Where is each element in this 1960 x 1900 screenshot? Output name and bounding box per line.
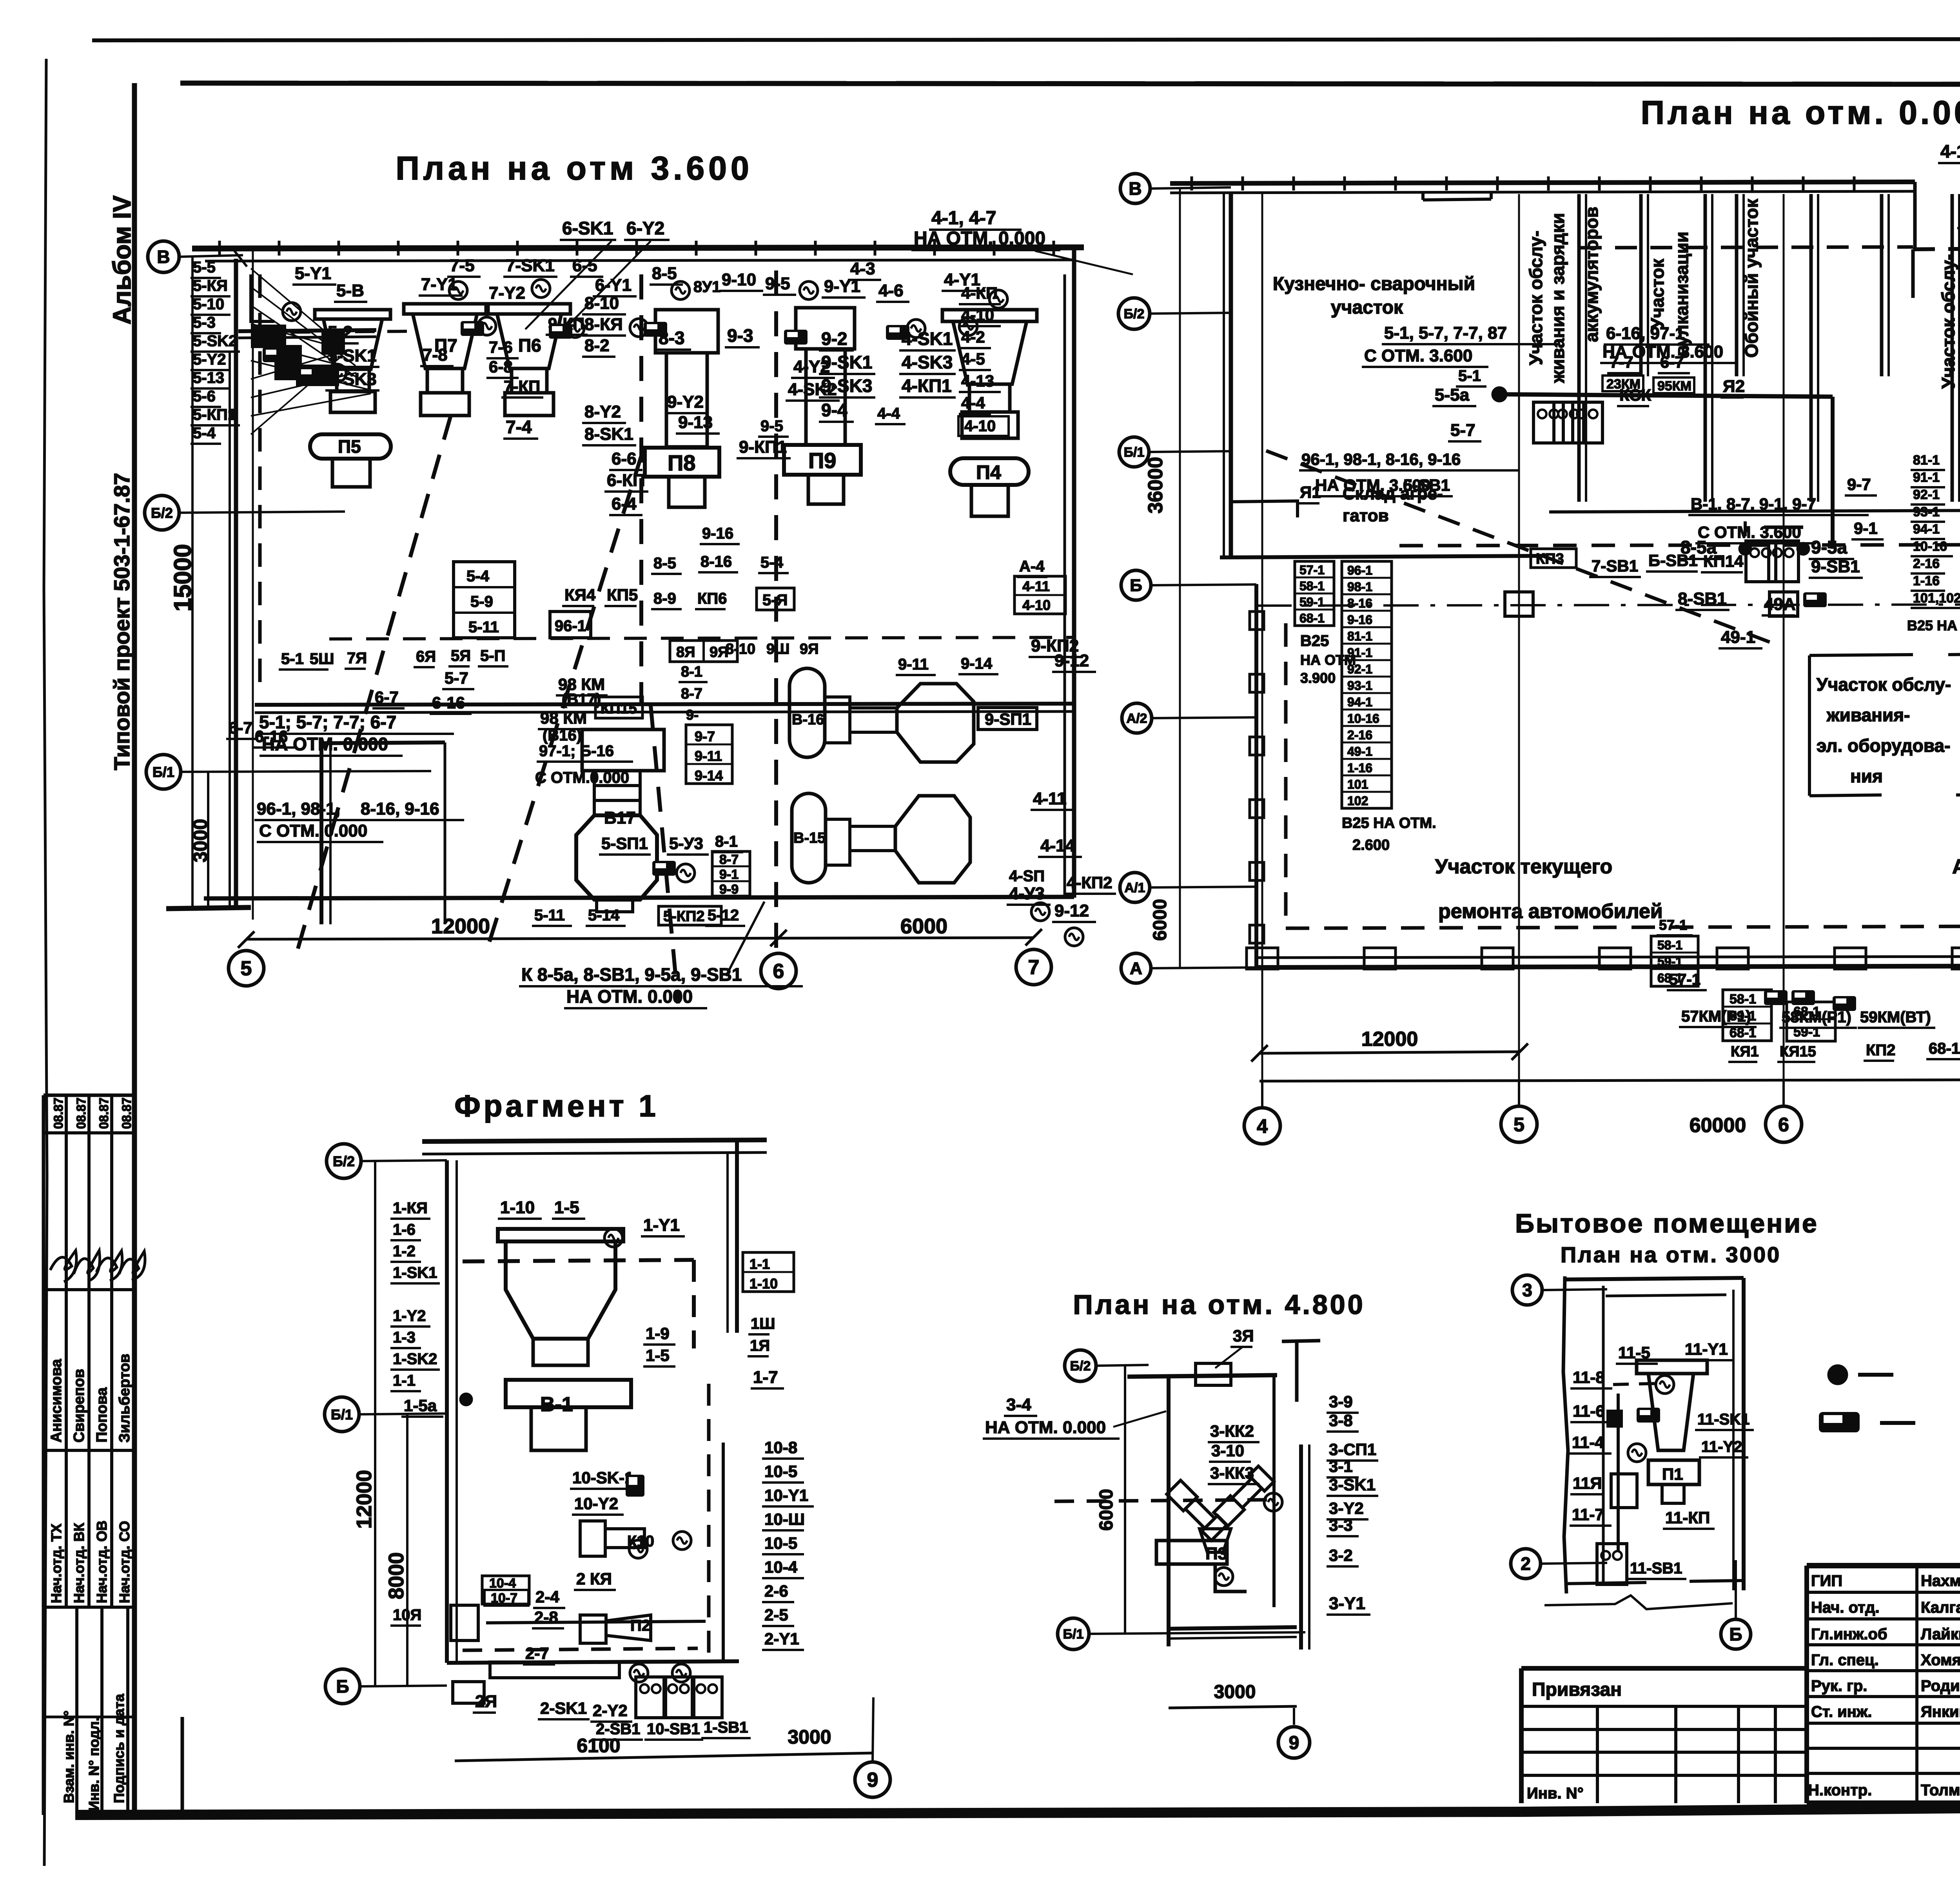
svg-text:10-SK-1: 10-SK-1 <box>572 1468 633 1487</box>
p48 axis Б/1 <box>1089 1632 1305 1634</box>
svg-text:Родионова: Родионова <box>1921 1677 1960 1695</box>
plan2 bottom wall inner <box>1256 956 1960 958</box>
frag grid leader 9 <box>873 1697 873 1762</box>
label box 96-1 <box>550 612 591 638</box>
svg-text:П8: П8 <box>668 450 695 475</box>
sensor (circle-tilde) <box>959 318 977 336</box>
svg-text:12000: 12000 <box>352 1470 376 1529</box>
byt route vertical <box>1617 1394 1620 1552</box>
dashed route vertical left <box>258 274 262 690</box>
machine B-15 funnel <box>826 819 850 865</box>
plan2 west wall 2 <box>1223 194 1225 557</box>
plan2 top wall tick west <box>1649 176 1652 191</box>
grid circle Б <box>1121 570 1151 600</box>
svg-text:4-Y2: 4-Y2 <box>793 357 830 376</box>
p48 dim vert <box>1124 1366 1126 1634</box>
route vertical 8-5a <box>1744 521 1747 536</box>
plan1 top wall tick <box>755 241 757 256</box>
svg-text:гатов: гатов <box>1343 506 1389 525</box>
svg-text:Б/1: Б/1 <box>1124 445 1145 460</box>
svg-text:Нахметдинов: Нахметдинов <box>1921 1572 1960 1590</box>
privyazan col <box>1674 1706 1677 1803</box>
outer top border line <box>92 39 1960 40</box>
svg-text:1Я: 1Я <box>750 1337 770 1354</box>
svg-text:59-1: 59-1 <box>1657 955 1682 969</box>
plan1 top wall tick <box>457 241 459 256</box>
column line 4 <box>1261 194 1263 1081</box>
plan2 top wall tick west <box>1547 176 1550 191</box>
svg-text:ремонта автомобилей: ремонта автомобилей <box>1438 900 1663 923</box>
dim tick <box>1512 1043 1528 1060</box>
grid circle Б/2 <box>1065 1350 1096 1381</box>
inner frame left line <box>132 83 137 1815</box>
svg-text:94-1: 94-1 <box>1347 695 1372 709</box>
frag dashed vertical 1-7 <box>707 1384 711 1662</box>
svg-text:4-4: 4-4 <box>877 405 900 422</box>
svg-text:9-1: 9-1 <box>719 867 739 882</box>
svg-text:5-Y2: 5-Y2 <box>193 351 226 368</box>
svg-text:8-5: 8-5 <box>652 264 677 283</box>
plan1 top wall lower line <box>205 260 1074 261</box>
stamp signature 3 <box>96 1251 122 1281</box>
plan1 room walls bottom-left <box>319 743 323 924</box>
byt hopper plate <box>1637 1360 1707 1374</box>
plan1 right wall inner <box>1063 274 1066 897</box>
svg-text:10-Ш: 10-Ш <box>764 1510 805 1528</box>
svg-text:9-16: 9-16 <box>702 525 733 542</box>
plan1 top wall tick <box>933 241 936 256</box>
label box КП3 <box>1531 549 1576 568</box>
svg-text:Б: Б <box>1729 1624 1742 1644</box>
plan2 top wall tick west <box>1598 176 1601 191</box>
pushbutton box <box>1746 541 1776 582</box>
p48 bottom wall2 <box>1169 1637 1297 1639</box>
svg-text:10-Y2: 10-Y2 <box>574 1494 618 1513</box>
svg-text:95КМ: 95КМ <box>1657 379 1691 394</box>
svg-text:Подпись и дата: Подпись и дата <box>111 1693 127 1803</box>
plan2 bottom column pad <box>1247 948 1278 969</box>
svg-text:Агрегатно - механический: Агрегатно - механический <box>1952 855 1960 878</box>
p48 outer right wall <box>1299 1445 1303 1650</box>
plan2 west wall low pad <box>1250 925 1264 943</box>
frag axis Б/2 <box>361 1160 447 1161</box>
machine B-16 funnel <box>825 697 850 743</box>
svg-text:3: 3 <box>1522 1280 1532 1300</box>
svg-text:10-16: 10-16 <box>1347 711 1379 726</box>
staff row line <box>1807 1669 1960 1672</box>
svg-text:5-1: 5-1 <box>281 650 304 668</box>
svg-text:8У1: 8У1 <box>693 278 720 296</box>
frag hopper B-1 bar <box>506 1380 631 1407</box>
sensor (circle-tilde) <box>630 319 648 337</box>
leader 5-SK2 <box>251 342 356 369</box>
leader 5-13 <box>251 352 342 379</box>
svg-text:3-2: 3-2 <box>1329 1546 1353 1564</box>
frag hopper B-1 plate <box>498 1229 623 1241</box>
plan2 west wall <box>1229 194 1233 557</box>
svg-text:Нач.отд. ВК: Нач.отд. ВК <box>71 1523 87 1603</box>
svg-text:П9: П9 <box>808 448 836 473</box>
staff row line <box>1807 1643 1960 1646</box>
svg-text:5-4: 5-4 <box>193 425 216 442</box>
plan2 top wall west segment <box>1170 182 1915 183</box>
svg-text:3-1: 3-1 <box>1329 1457 1353 1475</box>
sensor (circle-tilde) <box>532 279 550 298</box>
plan2 west wall low pad <box>1250 862 1264 880</box>
svg-text:6000: 6000 <box>900 915 947 938</box>
titleblock bottom edge <box>1807 1800 1960 1806</box>
plan2 west wall low <box>1254 584 1258 968</box>
svg-text:8-7: 8-7 <box>719 852 739 867</box>
svg-text:9-Y2: 9-Y2 <box>667 392 704 412</box>
svg-text:Б/2: Б/2 <box>1124 307 1145 321</box>
byt top wall <box>1565 1278 1744 1279</box>
svg-text:1-2: 1-2 <box>393 1243 416 1260</box>
svg-text:6000: 6000 <box>1150 899 1171 941</box>
svg-text:9: 9 <box>867 1769 878 1791</box>
axis line Б/1 <box>1149 451 1231 452</box>
svg-text:8-10: 8-10 <box>584 294 619 313</box>
leader 4-1 4-7 <box>1035 251 1133 274</box>
svg-text:А/1: А/1 <box>1125 880 1145 895</box>
p48 route elbow <box>1215 1564 1247 1591</box>
svg-text:В-1: В-1 <box>540 1393 573 1416</box>
svg-text:Нач.отд. СО: Нач.отд. СО <box>116 1521 132 1603</box>
svg-text:7-SK1: 7-SK1 <box>506 256 555 275</box>
svg-text:5-5а: 5-5а <box>1435 385 1470 405</box>
label box 10-4 10-7 <box>482 1576 529 1604</box>
frag hopper B-1 neck <box>533 1339 588 1365</box>
svg-text:91-1: 91-1 <box>1347 646 1372 660</box>
svg-text:8-16, 9-16: 8-16, 9-16 <box>361 799 439 818</box>
svg-text:96-1, 98-1,: 96-1, 98-1, <box>257 799 340 818</box>
svg-text:6-Y1: 6-Y1 <box>595 276 632 295</box>
p48 top wall <box>1127 1375 1277 1377</box>
label box П8 <box>645 448 719 477</box>
frag axis Б/1 <box>359 1414 447 1414</box>
svg-text:96-1: 96-1 <box>555 617 586 635</box>
axis leader В <box>1150 187 1231 189</box>
privyazan col <box>1774 1706 1777 1803</box>
p48 outer right wall2 <box>1308 1445 1310 1650</box>
svg-text:Хомяков: Хомяков <box>1921 1651 1960 1669</box>
grid circle 4 <box>1244 1108 1280 1144</box>
svg-text:7-6: 7-6 <box>489 338 513 356</box>
grid circle Б/2 <box>1118 298 1150 329</box>
staff row line <box>1807 1722 1960 1725</box>
plan1 top wall tick <box>278 241 281 256</box>
svg-text:В-15: В-15 <box>793 830 826 846</box>
sensor (circle-tilde) <box>449 281 467 299</box>
dashed route upper <box>1580 247 1913 248</box>
leader 3-4 <box>1113 1411 1166 1427</box>
svg-text:10Я: 10Я <box>393 1606 421 1624</box>
plan2 top wall tick west <box>1802 176 1805 191</box>
leader 5-КЯ <box>251 287 356 366</box>
svg-text:7: 7 <box>1028 956 1040 979</box>
sensor (circle-tilde) <box>1628 1444 1646 1462</box>
svg-text:8Я: 8Я <box>676 644 695 661</box>
column line 5 <box>1518 194 1520 1081</box>
stamp column divider below names <box>44 1449 134 1452</box>
leader 5-Y2 <box>251 361 370 390</box>
svg-text:8-КЯ: 8-КЯ <box>584 315 623 334</box>
svg-text:9-КП1: 9-КП1 <box>739 437 787 457</box>
svg-text:6-SK1: 6-SK1 <box>562 218 613 238</box>
privyazan col <box>1596 1706 1599 1803</box>
byt hopper funnel <box>1648 1374 1693 1450</box>
axis line Б/1 plan1 <box>181 771 431 772</box>
grid leader 6 <box>1782 1081 1785 1106</box>
machine B17 stack <box>594 771 640 786</box>
p48 dashed route <box>1054 1500 1270 1501</box>
svg-text:Нач.отд. ТХ: Нач.отд. ТХ <box>48 1524 64 1603</box>
frag dashed vertical <box>692 1260 696 1348</box>
instrument (regulator box) <box>461 321 484 336</box>
svg-text:8-10: 8-10 <box>726 641 755 657</box>
svg-text:К 8-5а, 8-SВ1, 9-5а, 9-SВ1: К 8-5а, 8-SВ1, 9-5а, 9-SВ1 <box>521 964 742 985</box>
axis line Б dashdot <box>1151 584 1256 585</box>
svg-text:П6: П6 <box>518 335 541 356</box>
label box П9 <box>784 445 861 475</box>
label box 8-7 stack <box>712 851 750 896</box>
svg-text:2-Y1: 2-Y1 <box>764 1630 799 1648</box>
svg-text:Калганов: Калганов <box>1921 1599 1960 1616</box>
plan1 top wall tick <box>993 241 996 256</box>
corridor dashed route <box>1399 544 1960 546</box>
svg-text:6-5: 6-5 <box>572 256 597 275</box>
route from 5-5a down <box>1831 397 1835 549</box>
svg-text:4-10: 4-10 <box>1022 597 1051 613</box>
П5 stem <box>332 459 370 487</box>
p48 left wall <box>1167 1377 1171 1646</box>
svg-text:59КМ(ВТ): 59КМ(ВТ) <box>1860 1009 1931 1026</box>
svg-text:3000: 3000 <box>189 819 211 862</box>
svg-text:В25 НА ОТМ.2600: В25 НА ОТМ.2600 <box>1907 617 1960 633</box>
svg-text:68-1: 68-1 <box>1929 1040 1960 1057</box>
stamp column top line <box>44 1094 134 1097</box>
svg-text:9-7: 9-7 <box>1847 475 1871 494</box>
plan1 left wall <box>234 259 238 907</box>
svg-text:5-6: 5-6 <box>193 388 216 405</box>
svg-text:3-Y2: 3-Y2 <box>1329 1499 1364 1517</box>
p48 right wall <box>1272 1377 1276 1607</box>
svg-text:12000: 12000 <box>1361 1028 1418 1051</box>
svg-text:9-5: 9-5 <box>765 274 790 293</box>
frag left instr <box>453 1682 484 1703</box>
p48 bottom wall <box>1169 1627 1297 1629</box>
svg-text:ния: ния <box>1850 766 1883 786</box>
svg-text:102: 102 <box>1347 794 1368 808</box>
plan1 top wall tick <box>338 241 340 256</box>
byt axis Б leader <box>1735 1560 1737 1619</box>
sensor (circle-tilde) <box>989 290 1007 308</box>
stadium П5 <box>310 434 391 459</box>
svg-text:6-6: 6-6 <box>612 449 637 468</box>
instrument (regulator box) <box>626 1475 644 1497</box>
byt stem <box>1662 1484 1684 1503</box>
svg-text:68-1: 68-1 <box>1657 971 1682 985</box>
svg-text:участок: участок <box>1331 297 1403 318</box>
svg-text:Бытовое помещение: Бытовое помещение <box>1515 1209 1818 1238</box>
sensor (circle-tilde) <box>478 317 496 335</box>
svg-text:2-SK1: 2-SK1 <box>540 1699 587 1717</box>
svg-text:4-10: 4-10 <box>964 417 996 435</box>
svg-text:93-1: 93-1 <box>1913 504 1940 519</box>
svg-text:5-3: 5-3 <box>193 314 216 331</box>
svg-text:9-14: 9-14 <box>695 768 723 784</box>
svg-text:91-1: 91-1 <box>1913 470 1940 485</box>
plan1 left wall inner <box>229 353 231 907</box>
svg-text:49-1: 49-1 <box>1721 628 1755 647</box>
instrument (regulator box) <box>263 347 286 362</box>
frag dashed route top <box>463 1260 694 1261</box>
grid circle Б/1 <box>1058 1618 1089 1650</box>
sensor (circle-tilde) <box>630 1664 648 1682</box>
byt break line <box>1544 1595 1733 1609</box>
grid leader 4 <box>1261 1081 1263 1108</box>
grid circle Б/1 <box>146 755 181 789</box>
svg-text:С ОТМ. 3.600: С ОТМ. 3.600 <box>1364 346 1472 365</box>
svg-text:2-16: 2-16 <box>1347 728 1372 742</box>
svg-text:1-5: 1-5 <box>646 1346 670 1365</box>
privyazan row line1 <box>1521 1705 1807 1708</box>
axis line Б/2 <box>1150 313 1231 314</box>
machine B17 octagon <box>576 815 657 900</box>
svg-text:2-SВ1: 2-SВ1 <box>596 1720 640 1738</box>
svg-text:9-SП1: 9-SП1 <box>985 710 1031 728</box>
partition wall <box>1704 194 1707 502</box>
svg-text:6000: 6000 <box>1096 1489 1117 1531</box>
grid circle Б/1 <box>325 1397 359 1432</box>
svg-text:3-SK1: 3-SK1 <box>1329 1475 1376 1494</box>
svg-text:2: 2 <box>1521 1553 1531 1574</box>
svg-text:Рук. гр.: Рук. гр. <box>1811 1677 1867 1695</box>
byt right wall2 <box>1732 1290 1735 1590</box>
plan2 top wall tick west <box>1241 176 1244 191</box>
leader 5-3 <box>251 324 341 348</box>
svg-text:9-5: 9-5 <box>760 417 783 435</box>
partition wall <box>1809 194 1813 502</box>
grid circle А <box>1121 953 1151 983</box>
svg-text:А-4: А-4 <box>1019 558 1045 575</box>
svg-text:96-1, 98-1, 8-16, 9-16: 96-1, 98-1, 8-16, 9-16 <box>1301 450 1461 468</box>
privyazan row line2 <box>1521 1728 1807 1731</box>
leader 5-5 <box>251 269 341 345</box>
instrument (regulator box) <box>1791 990 1815 1005</box>
plan2 west wall low pad <box>1250 737 1264 755</box>
byt axis 2 <box>1541 1563 1607 1564</box>
svg-text:2 КЯ: 2 КЯ <box>576 1570 612 1588</box>
svg-text:4-1, 4-7: 4-1, 4-7 <box>931 208 996 229</box>
svg-text:58-1: 58-1 <box>1657 938 1682 952</box>
label box КП15 <box>595 697 642 718</box>
svg-text:36000: 36000 <box>1144 457 1167 514</box>
svg-text:1-10: 1-10 <box>750 1276 778 1292</box>
svg-text:10-Y1: 10-Y1 <box>764 1486 808 1504</box>
stamp bottom lane line 3 <box>126 1607 129 1815</box>
stamp signature 2 <box>74 1250 100 1281</box>
plan1 top wall tick <box>814 241 817 256</box>
stamp signature 1 <box>50 1250 76 1282</box>
plan2 top wall tick west <box>1394 176 1397 191</box>
svg-text:2-16: 2-16 <box>1913 556 1940 571</box>
svg-text:9-2: 9-2 <box>821 328 847 349</box>
pushbutton box <box>1573 402 1602 443</box>
leader to 6 circle <box>726 902 764 976</box>
svg-text:2Я: 2Я <box>475 1692 497 1711</box>
privyazan row line3 <box>1521 1751 1807 1754</box>
svg-text:5-4: 5-4 <box>466 568 490 585</box>
svg-text:1-1: 1-1 <box>393 1372 416 1389</box>
svg-text:1Ш: 1Ш <box>751 1315 775 1332</box>
svg-text:9-9: 9-9 <box>719 882 739 897</box>
svg-text:2-6: 2-6 <box>764 1582 788 1600</box>
svg-text:НА ОТМ. 0.000: НА ОТМ. 0.000 <box>985 1418 1106 1437</box>
sensor (circle-tilde) <box>283 303 301 321</box>
plan1 top wall <box>192 247 1084 249</box>
svg-text:5-У3: 5-У3 <box>669 834 703 853</box>
svg-text:Б: Б <box>336 1676 349 1697</box>
plan2 top wall tick west <box>1292 176 1295 191</box>
svg-text:5-14: 5-14 <box>588 907 620 924</box>
svg-text:живания-: живания- <box>1826 705 1910 725</box>
svg-text:9-14: 9-14 <box>961 655 993 672</box>
svg-text:2-Y2: 2-Y2 <box>593 1701 628 1720</box>
svg-text:План на отм. 0.000: План на отм. 0.000 <box>1641 94 1960 131</box>
frag right wall <box>735 1140 739 1333</box>
dim tick 6 <box>770 930 787 946</box>
label box 9-SП1 <box>978 708 1037 730</box>
svg-text:3-Y1: 3-Y1 <box>1329 1594 1365 1613</box>
p48 cross machine 2 <box>1213 1466 1274 1527</box>
K10 machine <box>580 1521 605 1556</box>
sensor (circle-tilde) <box>1656 1376 1674 1394</box>
sensor (circle-tilde) <box>1031 903 1049 921</box>
label box 4-11 stack right <box>1014 576 1065 614</box>
svg-text:4-11: 4-11 <box>1033 789 1067 808</box>
frag hopper B-1 body <box>506 1241 615 1339</box>
kuznechno bottom wall <box>1220 556 1548 557</box>
svg-text:Инв. N°: Инв. N° <box>1527 1785 1584 1802</box>
svg-text:живания и зарядки: живания и зарядки <box>1548 213 1568 383</box>
svg-text:57-1: 57-1 <box>1659 917 1687 933</box>
frag right wall2 <box>726 1152 729 1333</box>
plan2 top wall tick west <box>1343 176 1346 191</box>
svg-text:5: 5 <box>1514 1114 1524 1136</box>
sensor (circle-tilde) <box>328 364 346 382</box>
plan1 bottom dim line <box>246 938 1034 939</box>
axis line Б/2 plan1 <box>179 512 345 513</box>
sensor (circle-tilde) <box>604 1229 622 1247</box>
svg-text:Б/2: Б/2 <box>333 1153 355 1169</box>
plan1 vertical dim line <box>191 257 194 909</box>
svg-text:8-16: 8-16 <box>1347 596 1372 610</box>
plan2 bottom column pad <box>1717 948 1748 969</box>
frag axis Б <box>360 1686 447 1686</box>
plan2 wall step at 4885 <box>1913 182 1917 248</box>
label stack 57-1 mid <box>1651 936 1698 986</box>
svg-text:98 КМ: 98 КМ <box>540 709 587 727</box>
pushbutton box <box>1534 402 1563 443</box>
dashed route top <box>1913 248 1960 249</box>
svg-text:59-1: 59-1 <box>1299 595 1325 609</box>
svg-text:5-11: 5-11 <box>534 907 565 924</box>
dashed route diagonal lower <box>651 706 678 1004</box>
svg-text:КП15: КП15 <box>601 700 637 717</box>
svg-text:3-9: 3-9 <box>1329 1392 1353 1411</box>
grid circle Б/2 <box>327 1144 361 1178</box>
